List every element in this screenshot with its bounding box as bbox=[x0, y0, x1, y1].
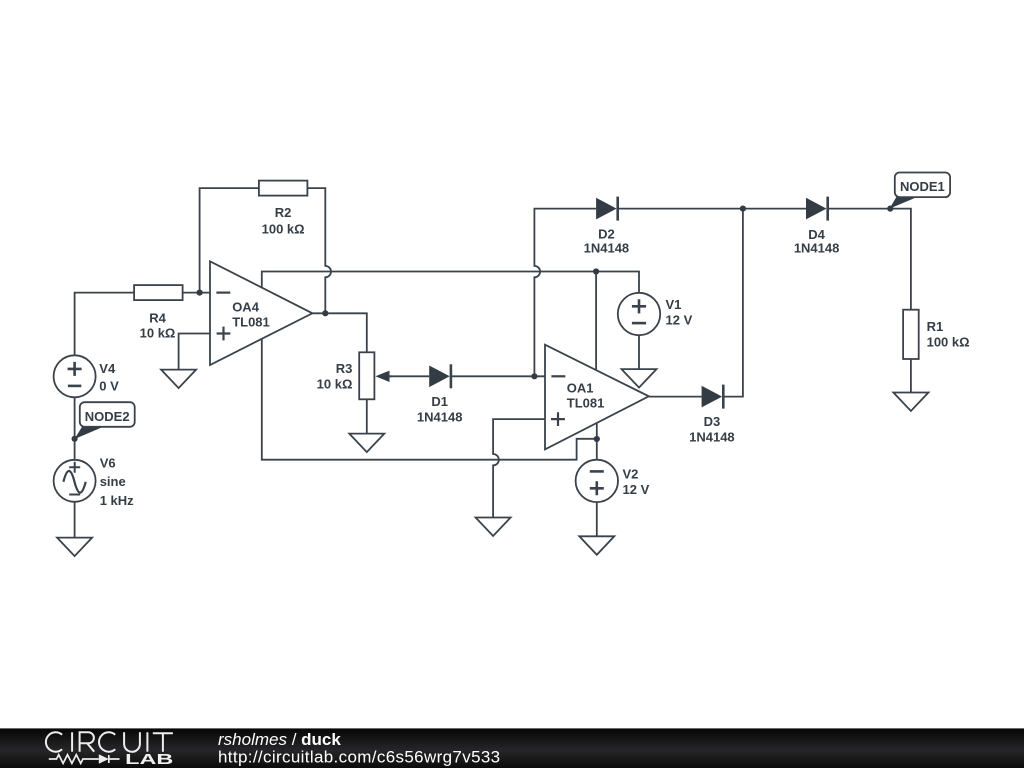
ground below V1 bbox=[622, 369, 657, 388]
wire OA4 output to R3 top bbox=[312, 313, 366, 352]
svg-text:V1: V1 bbox=[666, 297, 682, 312]
node junction dot at OA1 V- / V2 bbox=[594, 436, 600, 442]
svg-text:R1: R1 bbox=[927, 319, 944, 334]
svg-text:0 V: 0 V bbox=[99, 378, 119, 393]
diode D2 bbox=[584, 197, 630, 256]
svg-text:sine: sine bbox=[100, 474, 126, 489]
wire V4 to R4 bbox=[75, 293, 135, 356]
wire OA1 V+ pin drop from rail bbox=[595, 272, 597, 371]
svg-text:D3: D3 bbox=[704, 414, 721, 429]
wire R4 to OA4 inverting input bbox=[183, 292, 210, 294]
op-amp OA1 bbox=[545, 345, 649, 450]
wire R3 wiper to D1 anode bbox=[390, 375, 430, 377]
resistor R3 (potentiometer) bbox=[317, 352, 392, 399]
node NODE2 flag bbox=[72, 402, 135, 442]
diode D1 bbox=[417, 364, 463, 424]
resistor R4 bbox=[134, 285, 183, 340]
wire D4 cathode to R1 top via NODE1 corner bbox=[829, 209, 911, 310]
wire OA4 V- pin and negative rail to OA1 V- bbox=[262, 339, 597, 460]
svg-text:12 V: 12 V bbox=[623, 482, 650, 497]
svg-text:1N4148: 1N4148 bbox=[689, 430, 735, 445]
diode D3 bbox=[689, 385, 735, 445]
wire V1 bottom to ground bbox=[638, 335, 640, 369]
ground below V6 bbox=[57, 538, 92, 557]
node junction dot at OA1 inverting input bbox=[531, 373, 537, 379]
wire V2 bottom to ground bbox=[596, 502, 598, 537]
resistor R2 bbox=[259, 181, 308, 237]
node junction dot at OA4 output bbox=[322, 310, 328, 316]
voltage source V1 bbox=[618, 293, 693, 335]
wire OA4 V+ pin and positive supply rail to V1 bbox=[262, 272, 639, 293]
voltage source V2 (inverted) bbox=[576, 460, 650, 502]
svg-text:rsholmes / duck: rsholmes / duck bbox=[218, 730, 341, 749]
wire R3 bottom to ground bbox=[366, 399, 368, 433]
wire OA4 noninverting input to ground bbox=[179, 334, 210, 370]
wire V4 bottom to V6 top bbox=[74, 397, 76, 460]
svg-text:10 kΩ: 10 kΩ bbox=[317, 377, 353, 392]
resistor R1 bbox=[903, 310, 969, 359]
CircuitLab logo resistor-diode squiggle bbox=[49, 755, 120, 764]
wire D3 cathode branch up to top rail bbox=[723, 209, 743, 397]
wire D2 anode vertical with hop over V+ rail bbox=[534, 209, 596, 377]
wire R2 top right and right vertical with hop over V+ rail bbox=[307, 188, 331, 313]
svg-text:TL081: TL081 bbox=[232, 315, 270, 330]
wire R1 bottom to ground bbox=[910, 359, 912, 393]
svg-text:1N4148: 1N4148 bbox=[417, 410, 463, 425]
svg-text:TL081: TL081 bbox=[567, 396, 605, 411]
svg-text:LAB: LAB bbox=[125, 751, 173, 768]
svg-text:OA4: OA4 bbox=[232, 299, 260, 314]
svg-text:D1: D1 bbox=[431, 394, 448, 409]
diode D4 bbox=[794, 197, 840, 256]
node junction dot at D2/D4/D3 bbox=[740, 206, 746, 212]
ground below OA1 + input bbox=[476, 518, 511, 537]
svg-text:1N4148: 1N4148 bbox=[794, 241, 840, 256]
svg-text:1N4148: 1N4148 bbox=[584, 240, 630, 255]
svg-text:100 kΩ: 100 kΩ bbox=[262, 221, 305, 236]
wire R2 feedback left vertical and top left bbox=[200, 188, 259, 293]
wire OA1 noninverting input to ground with hop over V- rail bbox=[493, 419, 545, 517]
node junction dot on V+ rail bbox=[593, 268, 599, 274]
svg-text:V6: V6 bbox=[100, 456, 116, 471]
svg-text:NODE1: NODE1 bbox=[900, 179, 945, 194]
svg-text:R3: R3 bbox=[336, 361, 353, 376]
node NODE1 flag bbox=[887, 173, 950, 212]
svg-text:12 V: 12 V bbox=[666, 313, 693, 328]
CircuitLab logo CIRCUIT wordmark bbox=[46, 732, 173, 752]
node junction dot at R4/R2/OA4- bbox=[197, 290, 203, 296]
voltage source V6 (sine) bbox=[54, 456, 135, 508]
voltage source V4 bbox=[54, 355, 120, 397]
ground below OA4 + input bbox=[161, 370, 196, 389]
op-amp OA4 bbox=[210, 261, 312, 365]
svg-text:OA1: OA1 bbox=[567, 381, 594, 396]
ground below R1 bbox=[893, 393, 928, 412]
svg-text:100 kΩ: 100 kΩ bbox=[927, 335, 970, 350]
wire OA1 V- pin to V2 bbox=[596, 423, 598, 460]
svg-text:R4: R4 bbox=[149, 310, 166, 325]
svg-text:10 kΩ: 10 kΩ bbox=[140, 325, 176, 340]
svg-text:V4: V4 bbox=[99, 361, 116, 376]
wire D1 cathode to OA1 inverting input bbox=[451, 375, 545, 377]
wire V6 bottom to ground bbox=[74, 502, 76, 538]
svg-text:NODE2: NODE2 bbox=[85, 409, 130, 424]
ground below V2 bbox=[579, 536, 614, 555]
ground below R3 bbox=[349, 434, 384, 453]
svg-text:1 kHz: 1 kHz bbox=[100, 493, 134, 508]
wire OA1 output to D3 anode bbox=[649, 396, 702, 398]
svg-text:http://circuitlab.com/c6s56wrg: http://circuitlab.com/c6s56wrg7v533 bbox=[218, 748, 501, 767]
svg-text:R2: R2 bbox=[275, 205, 292, 220]
wire D2 cathode to D4 anode bbox=[618, 208, 806, 210]
svg-text:V2: V2 bbox=[623, 467, 639, 482]
